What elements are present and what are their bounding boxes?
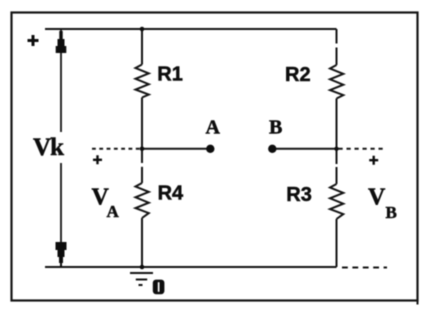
junction dot bottom left branch [140,265,145,270]
resistor R1 [136,65,149,98]
svg-text:B: B [386,203,397,222]
dashed lead left VA [92,148,142,150]
wire lead above R4 [141,167,143,183]
resistor R4 [136,183,149,218]
svg-text:A: A [107,202,120,221]
dashed lead right VB [339,148,387,150]
wire node down segment [141,149,143,163]
junction dot top left branch [140,27,145,32]
wire bottom horizontal [45,266,337,268]
svg-text:Vk: Vk [33,134,64,161]
junction dot mid left branch [140,147,145,152]
svg-text:R4: R4 [158,183,184,205]
wire top horizontal [45,28,337,30]
wire left branch upper (top wire to R1) [141,29,143,65]
arrowhead down (Vk bottom) [56,242,67,267]
wire lead above R2 [336,48,338,66]
ground bar 2 [136,279,147,281]
svg-text:V: V [368,185,386,211]
wire R1 to node [141,98,143,149]
node B dot [268,145,276,153]
svg-text:R2: R2 [285,64,311,86]
arrow shaft Vk lower [60,163,62,265]
junction dot mid right branch [334,147,338,151]
svg-text:B: B [269,117,282,139]
resistor R3 [330,184,343,219]
label 0 ground [153,280,165,295]
plus sign VA [93,155,102,164]
resistor R2 [330,65,343,99]
ground bar 1 [130,272,153,274]
arrowhead up (Vk top) [56,31,67,53]
plus sign VB [369,156,378,165]
wire R3 to bottom [336,219,338,267]
wire node B horizontal [273,148,337,150]
node A dot [206,145,214,153]
wire lead above R3 [336,167,338,184]
wire node down segment right [336,149,338,164]
svg-text:R3: R3 [286,184,312,206]
wire R4 to bottom [141,218,143,267]
ground bar 3 [139,284,143,286]
arrow shaft Vk upper [60,30,62,132]
wire right branch upper stub [336,29,338,44]
frame corner nub bottom right [417,300,419,305]
plus sign top left [28,35,39,46]
wire node A horizontal [142,148,210,150]
svg-text:A: A [206,117,221,139]
dashed bottom right [342,267,387,269]
wire R2 to node [336,99,338,149]
svg-text:R1: R1 [157,64,183,86]
